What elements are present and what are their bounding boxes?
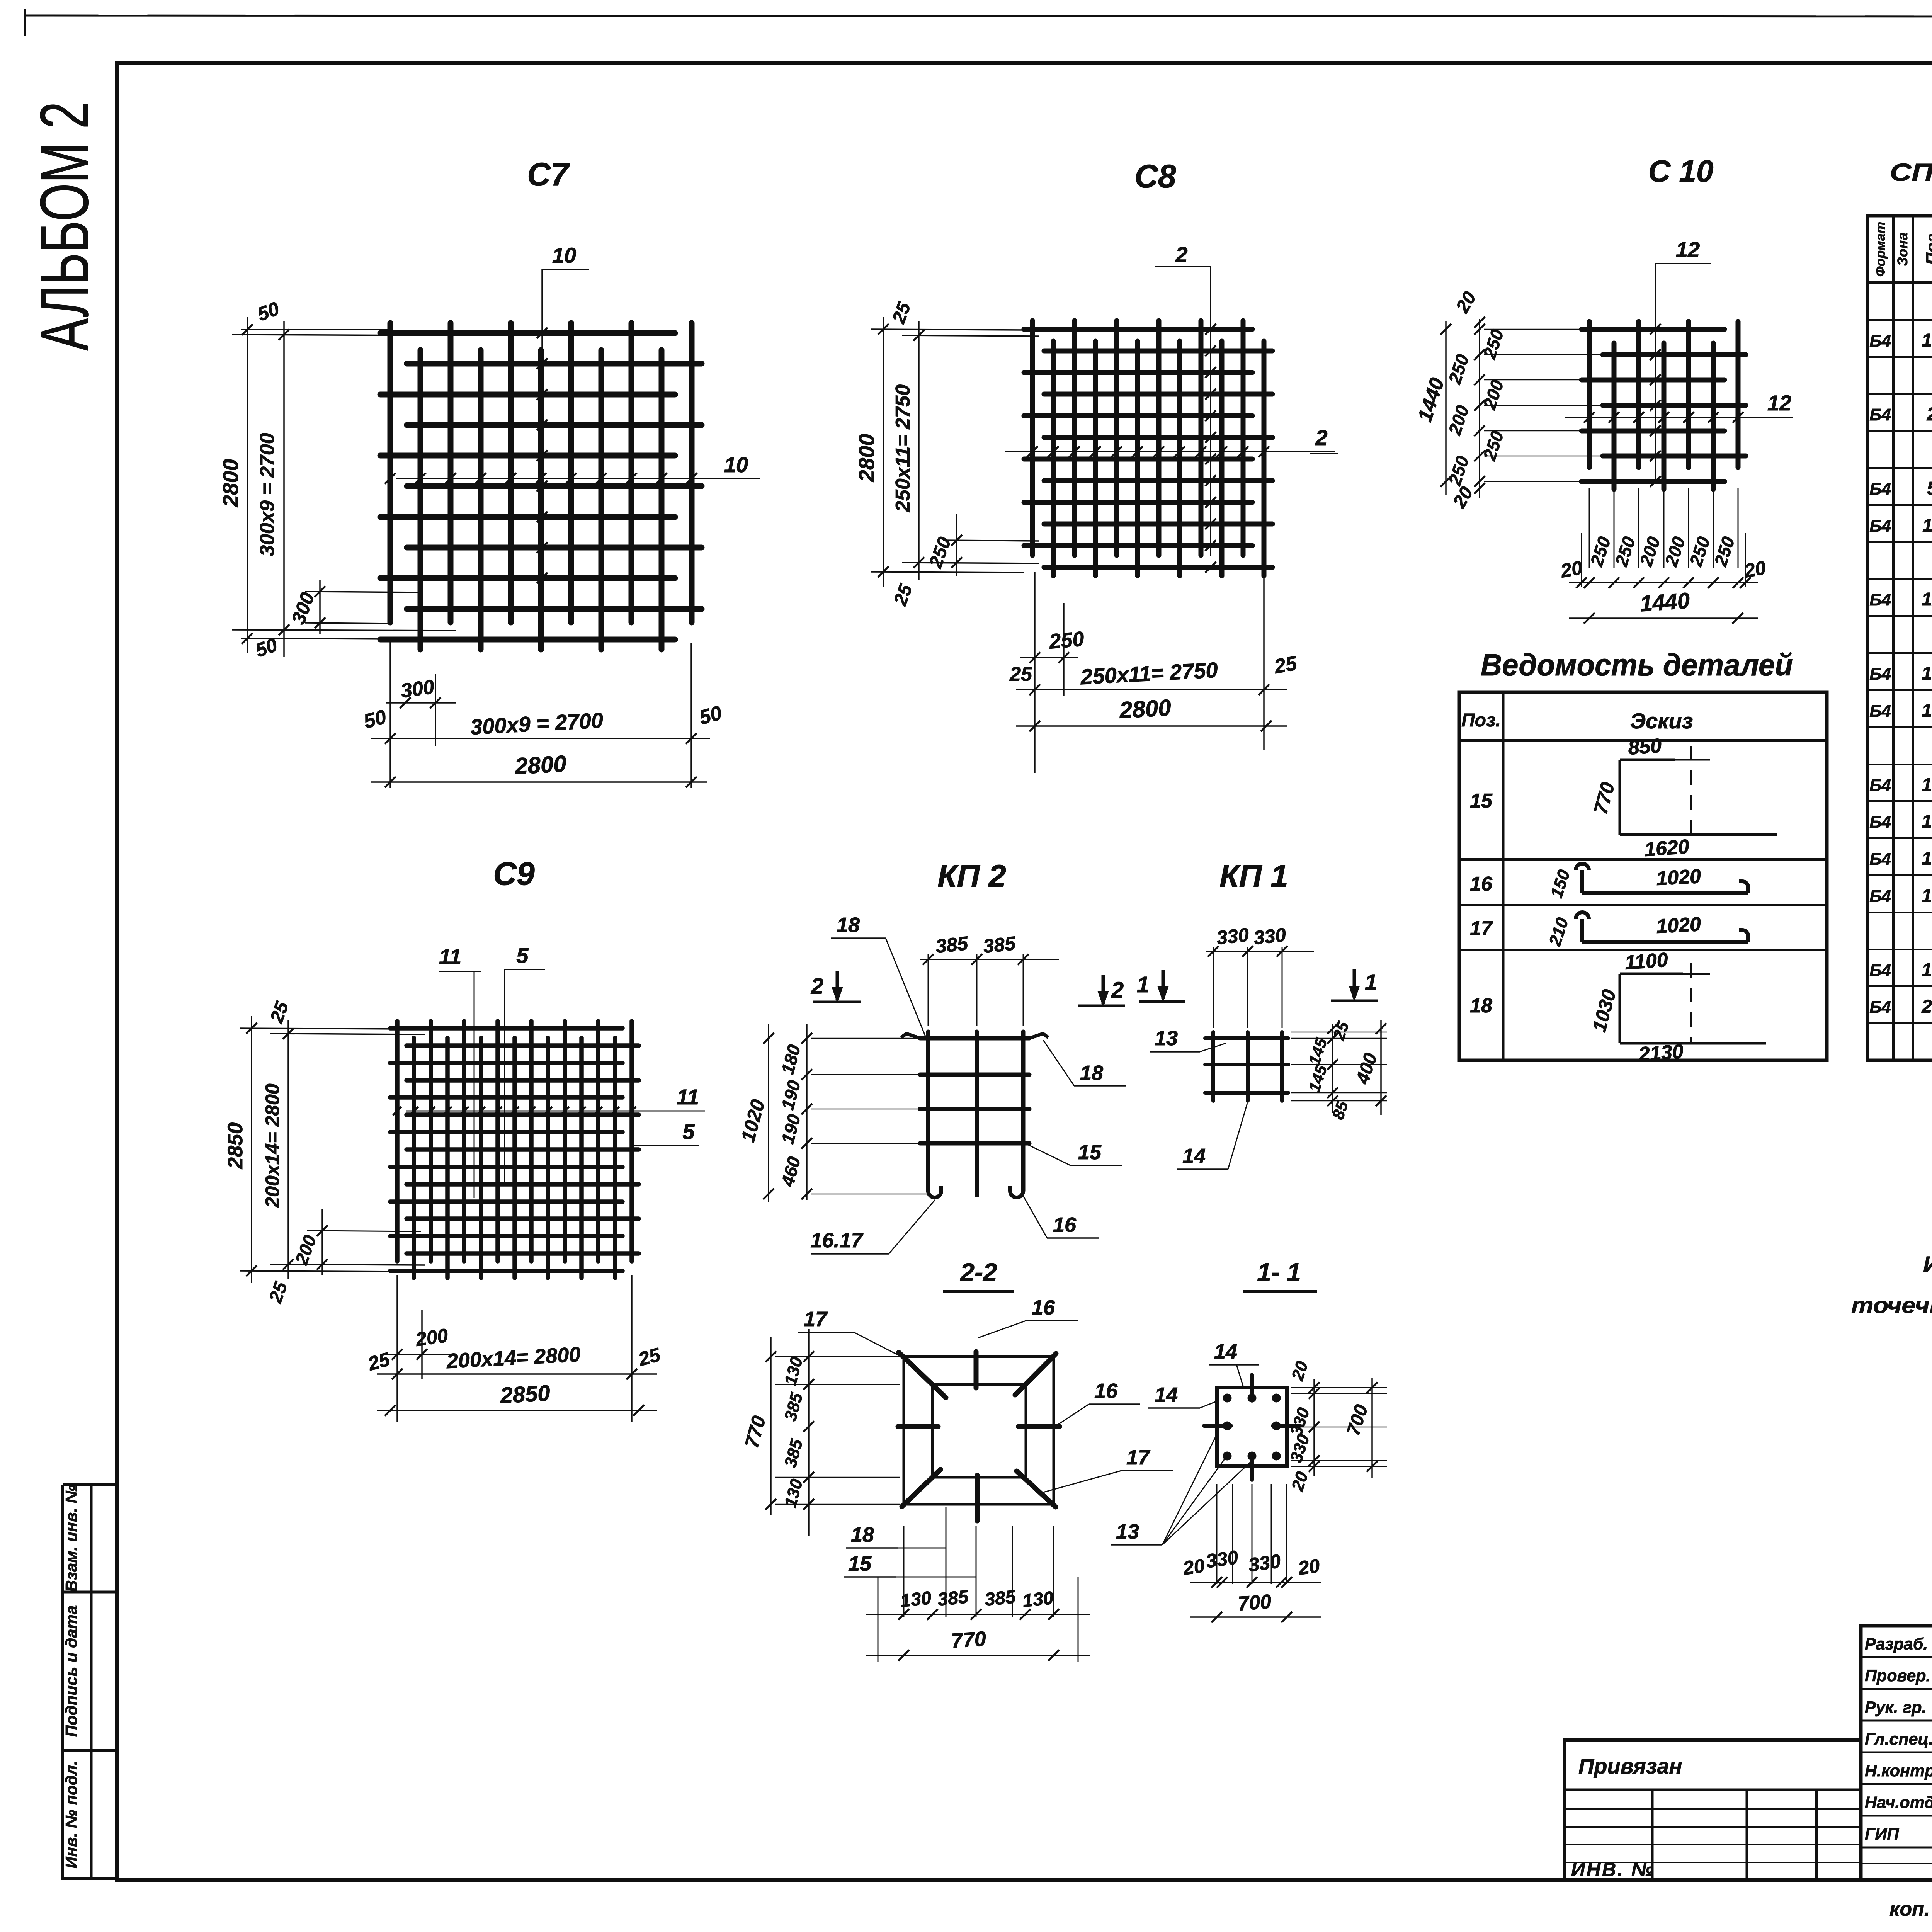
svg-text:Б4: Б4 xyxy=(1869,517,1891,536)
svg-text:2130: 2130 xyxy=(1638,1040,1684,1066)
svg-text:2: 2 xyxy=(1111,978,1124,1003)
svg-text:20: 20 xyxy=(1921,997,1932,1017)
svg-text:16: 16 xyxy=(1053,1213,1077,1236)
svg-text:20: 20 xyxy=(1181,1555,1206,1579)
svg-text:300х9 = 2700: 300х9 = 2700 xyxy=(256,433,279,556)
svg-text:Изготовление сеток производи: Изготовление сеток производить при помощ… xyxy=(1923,1252,1932,1277)
svg-text:2850: 2850 xyxy=(224,1122,247,1169)
svg-text:2800: 2800 xyxy=(1119,695,1172,723)
svg-text:18: 18 xyxy=(1470,995,1492,1017)
svg-text:18: 18 xyxy=(851,1523,874,1546)
svg-text:16: 16 xyxy=(1032,1296,1055,1319)
svg-text:Рук. гр.: Рук. гр. xyxy=(1865,1698,1926,1717)
svg-text:Зона: Зона xyxy=(1895,233,1910,266)
svg-text:5: 5 xyxy=(1927,478,1932,499)
svg-text:1020: 1020 xyxy=(1656,913,1702,938)
svg-text:13: 13 xyxy=(1922,663,1932,684)
svg-text:Б4: Б4 xyxy=(1869,961,1891,980)
svg-text:2: 2 xyxy=(1175,242,1187,267)
svg-text:Формат: Формат xyxy=(1873,222,1888,277)
svg-text:Ведомость деталей: Ведомость деталей xyxy=(1481,648,1793,682)
svg-text:10: 10 xyxy=(1922,330,1932,351)
svg-text:13: 13 xyxy=(1116,1520,1139,1543)
svg-text:17: 17 xyxy=(1126,1446,1151,1469)
svg-text:С 10: С 10 xyxy=(1648,154,1714,188)
svg-text:18: 18 xyxy=(837,913,860,937)
svg-text:770: 770 xyxy=(951,1627,987,1653)
svg-text:15: 15 xyxy=(1922,775,1932,795)
svg-text:16: 16 xyxy=(1094,1379,1118,1403)
svg-text:385: 385 xyxy=(935,932,969,957)
svg-text:15: 15 xyxy=(1470,790,1493,812)
svg-text:20: 20 xyxy=(1296,1555,1321,1579)
svg-text:2850: 2850 xyxy=(499,1381,551,1408)
svg-text:С7: С7 xyxy=(527,156,570,192)
svg-text:15: 15 xyxy=(1078,1141,1102,1164)
svg-text:20: 20 xyxy=(1559,557,1584,582)
svg-text:700: 700 xyxy=(1237,1590,1272,1615)
svg-text:Нач.отд.: Нач.отд. xyxy=(1865,1793,1932,1812)
svg-text:16: 16 xyxy=(1922,811,1932,832)
svg-text:250: 250 xyxy=(1048,627,1085,653)
svg-text:Взам. инв. №: Взам. инв. № xyxy=(62,1485,80,1592)
svg-text:200х14= 2800: 200х14= 2800 xyxy=(262,1083,283,1208)
svg-text:18: 18 xyxy=(1922,886,1932,906)
svg-text:Б4: Б4 xyxy=(1869,850,1891,869)
svg-text:5: 5 xyxy=(516,943,529,968)
svg-text:13: 13 xyxy=(1155,1027,1178,1050)
svg-text:2800: 2800 xyxy=(218,459,243,508)
svg-text:17: 17 xyxy=(1470,917,1493,940)
svg-text:12: 12 xyxy=(1676,237,1700,262)
svg-text:330: 330 xyxy=(1204,1546,1240,1572)
svg-text:2800: 2800 xyxy=(854,434,879,483)
svg-text:Привязан: Привязан xyxy=(1578,1754,1682,1778)
svg-text:385: 385 xyxy=(984,1587,1017,1610)
svg-text:385: 385 xyxy=(937,1587,970,1610)
svg-text:коп.: коп. xyxy=(1889,1898,1930,1920)
svg-text:25: 25 xyxy=(1009,663,1032,685)
svg-text:10: 10 xyxy=(552,243,576,267)
svg-text:2-2: 2-2 xyxy=(959,1258,997,1286)
svg-text:12: 12 xyxy=(1767,391,1791,415)
svg-text:16.17: 16.17 xyxy=(810,1229,864,1252)
svg-text:1: 1 xyxy=(1137,972,1149,997)
svg-text:Гл.спец.: Гл.спец. xyxy=(1865,1730,1932,1748)
svg-text:2: 2 xyxy=(1927,404,1932,425)
svg-text:14: 14 xyxy=(1922,701,1932,721)
svg-text:200: 200 xyxy=(414,1325,449,1350)
svg-text:5: 5 xyxy=(682,1119,695,1144)
svg-text:ИНВ. №: ИНВ. № xyxy=(1571,1859,1655,1880)
svg-text:330: 330 xyxy=(1253,924,1287,949)
svg-text:2800: 2800 xyxy=(514,751,567,779)
svg-text:Б4: Б4 xyxy=(1869,665,1891,684)
svg-text:Б4: Б4 xyxy=(1869,998,1891,1017)
svg-text:330: 330 xyxy=(1247,1550,1282,1576)
svg-text:Разраб.: Разраб. xyxy=(1865,1635,1928,1653)
svg-text:Б4: Б4 xyxy=(1869,405,1891,424)
svg-text:850: 850 xyxy=(1628,735,1663,759)
svg-text:Поз.: Поз. xyxy=(1461,710,1501,731)
svg-text:14: 14 xyxy=(1214,1340,1237,1363)
svg-text:11: 11 xyxy=(439,944,461,969)
svg-text:Б4: Б4 xyxy=(1869,590,1891,609)
svg-text:ГИП: ГИП xyxy=(1865,1825,1899,1844)
svg-text:Б4: Б4 xyxy=(1869,887,1891,906)
svg-text:16: 16 xyxy=(1470,873,1493,895)
svg-text:18: 18 xyxy=(1080,1061,1103,1085)
svg-text:Н.контр.: Н.контр. xyxy=(1865,1762,1932,1780)
svg-text:330: 330 xyxy=(1216,924,1250,949)
svg-text:Эскиз: Эскиз xyxy=(1630,709,1693,733)
svg-text:14: 14 xyxy=(1182,1145,1206,1168)
svg-text:15: 15 xyxy=(848,1552,872,1575)
svg-text:КП 2: КП 2 xyxy=(937,859,1006,894)
svg-text:11: 11 xyxy=(1922,515,1932,536)
svg-text:С9: С9 xyxy=(493,855,535,892)
svg-text:20: 20 xyxy=(1742,557,1768,582)
svg-text:250х11= 2750: 250х11= 2750 xyxy=(892,384,914,512)
svg-text:11: 11 xyxy=(677,1085,699,1109)
svg-text:130: 130 xyxy=(900,1588,932,1611)
svg-text:17: 17 xyxy=(1922,849,1932,869)
svg-text:19: 19 xyxy=(1922,960,1932,980)
svg-text:2: 2 xyxy=(811,974,823,999)
svg-text:300: 300 xyxy=(400,675,436,702)
svg-text:Подпись и дата: Подпись и дата xyxy=(62,1605,80,1737)
svg-text:Провер.: Провер. xyxy=(1865,1667,1931,1685)
svg-text:Б4: Б4 xyxy=(1869,702,1891,721)
svg-text:точечной электросварки в соо: точечной электросварки в соответствии с … xyxy=(1851,1293,1932,1318)
svg-text:Поз: Поз xyxy=(1923,234,1932,265)
svg-text:Б4: Б4 xyxy=(1869,776,1891,795)
svg-text:25: 25 xyxy=(1272,652,1299,678)
svg-text:Б4: Б4 xyxy=(1869,480,1891,498)
svg-text:17: 17 xyxy=(804,1308,828,1331)
svg-text:1620: 1620 xyxy=(1644,835,1690,861)
svg-text:130: 130 xyxy=(1022,1588,1054,1611)
svg-text:1100: 1100 xyxy=(1624,949,1669,974)
svg-text:Инв. № подл.: Инв. № подл. xyxy=(62,1760,80,1868)
svg-text:С8: С8 xyxy=(1134,158,1176,194)
svg-text:14: 14 xyxy=(1155,1383,1178,1406)
svg-text:1440: 1440 xyxy=(1639,588,1690,617)
svg-text:СПЕЦИФИКАЦИЯ СТАЛИ НА ОДИ: СПЕЦИФИКАЦИЯ СТАЛИ НА ОДИН ЭЛЕМЕНТ xyxy=(1890,158,1932,186)
svg-text:2: 2 xyxy=(1315,425,1327,450)
svg-text:1020: 1020 xyxy=(1656,865,1702,890)
svg-text:12: 12 xyxy=(1922,589,1932,610)
svg-text:10: 10 xyxy=(724,452,748,477)
svg-text:385: 385 xyxy=(982,932,1017,957)
svg-text:КП 1: КП 1 xyxy=(1219,859,1288,894)
svg-text:Б4: Б4 xyxy=(1869,813,1891,832)
svg-text:Б4: Б4 xyxy=(1869,332,1891,350)
svg-text:1- 1: 1- 1 xyxy=(1257,1258,1301,1286)
svg-text:АЛЬБОМ 2: АЛЬБОМ 2 xyxy=(26,102,103,351)
svg-text:1: 1 xyxy=(1365,970,1377,995)
